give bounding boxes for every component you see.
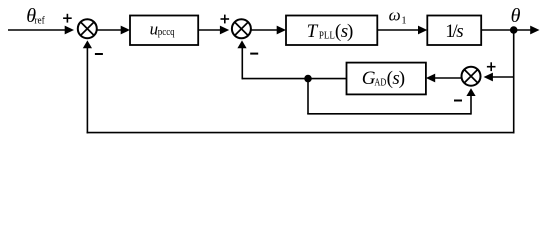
svg-text:): ) [347, 21, 353, 42]
summing junction S1 [78, 19, 97, 38]
S3 plus sign [487, 62, 496, 71]
wire S2 to TPLL [251, 26, 286, 35]
wire node A down right side [513, 30, 515, 133]
wire node B to S3 bottom input [307, 79, 475, 115]
node omega_1 label [389, 5, 407, 26]
svg-text:T: T [307, 21, 319, 42]
wire branch to S3 right input [484, 73, 514, 82]
svg-text:AD: AD [374, 78, 386, 89]
S3 minus sign [454, 100, 462, 102]
summing junction S2 [232, 19, 251, 38]
svg-text:pccq: pccq [158, 26, 175, 38]
wire S3 to GAD [426, 74, 461, 83]
svg-text:ω: ω [389, 5, 401, 24]
S1 minus sign [95, 53, 103, 55]
wire outer feedback loop to S1 bottom [83, 40, 515, 133]
S2 plus sign [221, 15, 230, 24]
node theta_ref input label [26, 5, 45, 27]
svg-text:s: s [456, 21, 463, 42]
node B dot on GAD output line [304, 75, 312, 83]
block G_AD(s) [347, 63, 426, 95]
wire S1 to upccq [97, 26, 130, 35]
summing junction S3 [462, 67, 481, 86]
svg-text:1: 1 [401, 15, 406, 26]
svg-text:θ: θ [511, 5, 521, 27]
wire output [481, 26, 539, 35]
node A output dot [510, 26, 518, 34]
block u_pccq [130, 16, 198, 46]
wire upccq to S2 [198, 26, 229, 35]
svg-text:ref: ref [34, 15, 45, 27]
block T_PLL(s) [286, 16, 377, 46]
wire input to S1 [8, 26, 74, 35]
svg-text:PLL: PLL [319, 30, 335, 41]
block 1/s [427, 16, 481, 46]
svg-text:): ) [399, 68, 405, 89]
wire GAD output to S2 bottom (inner feedback) [237, 40, 346, 79]
wire TPLL to 1/s [377, 26, 427, 35]
S2 minus sign [250, 53, 258, 55]
S1 plus sign [63, 14, 72, 23]
